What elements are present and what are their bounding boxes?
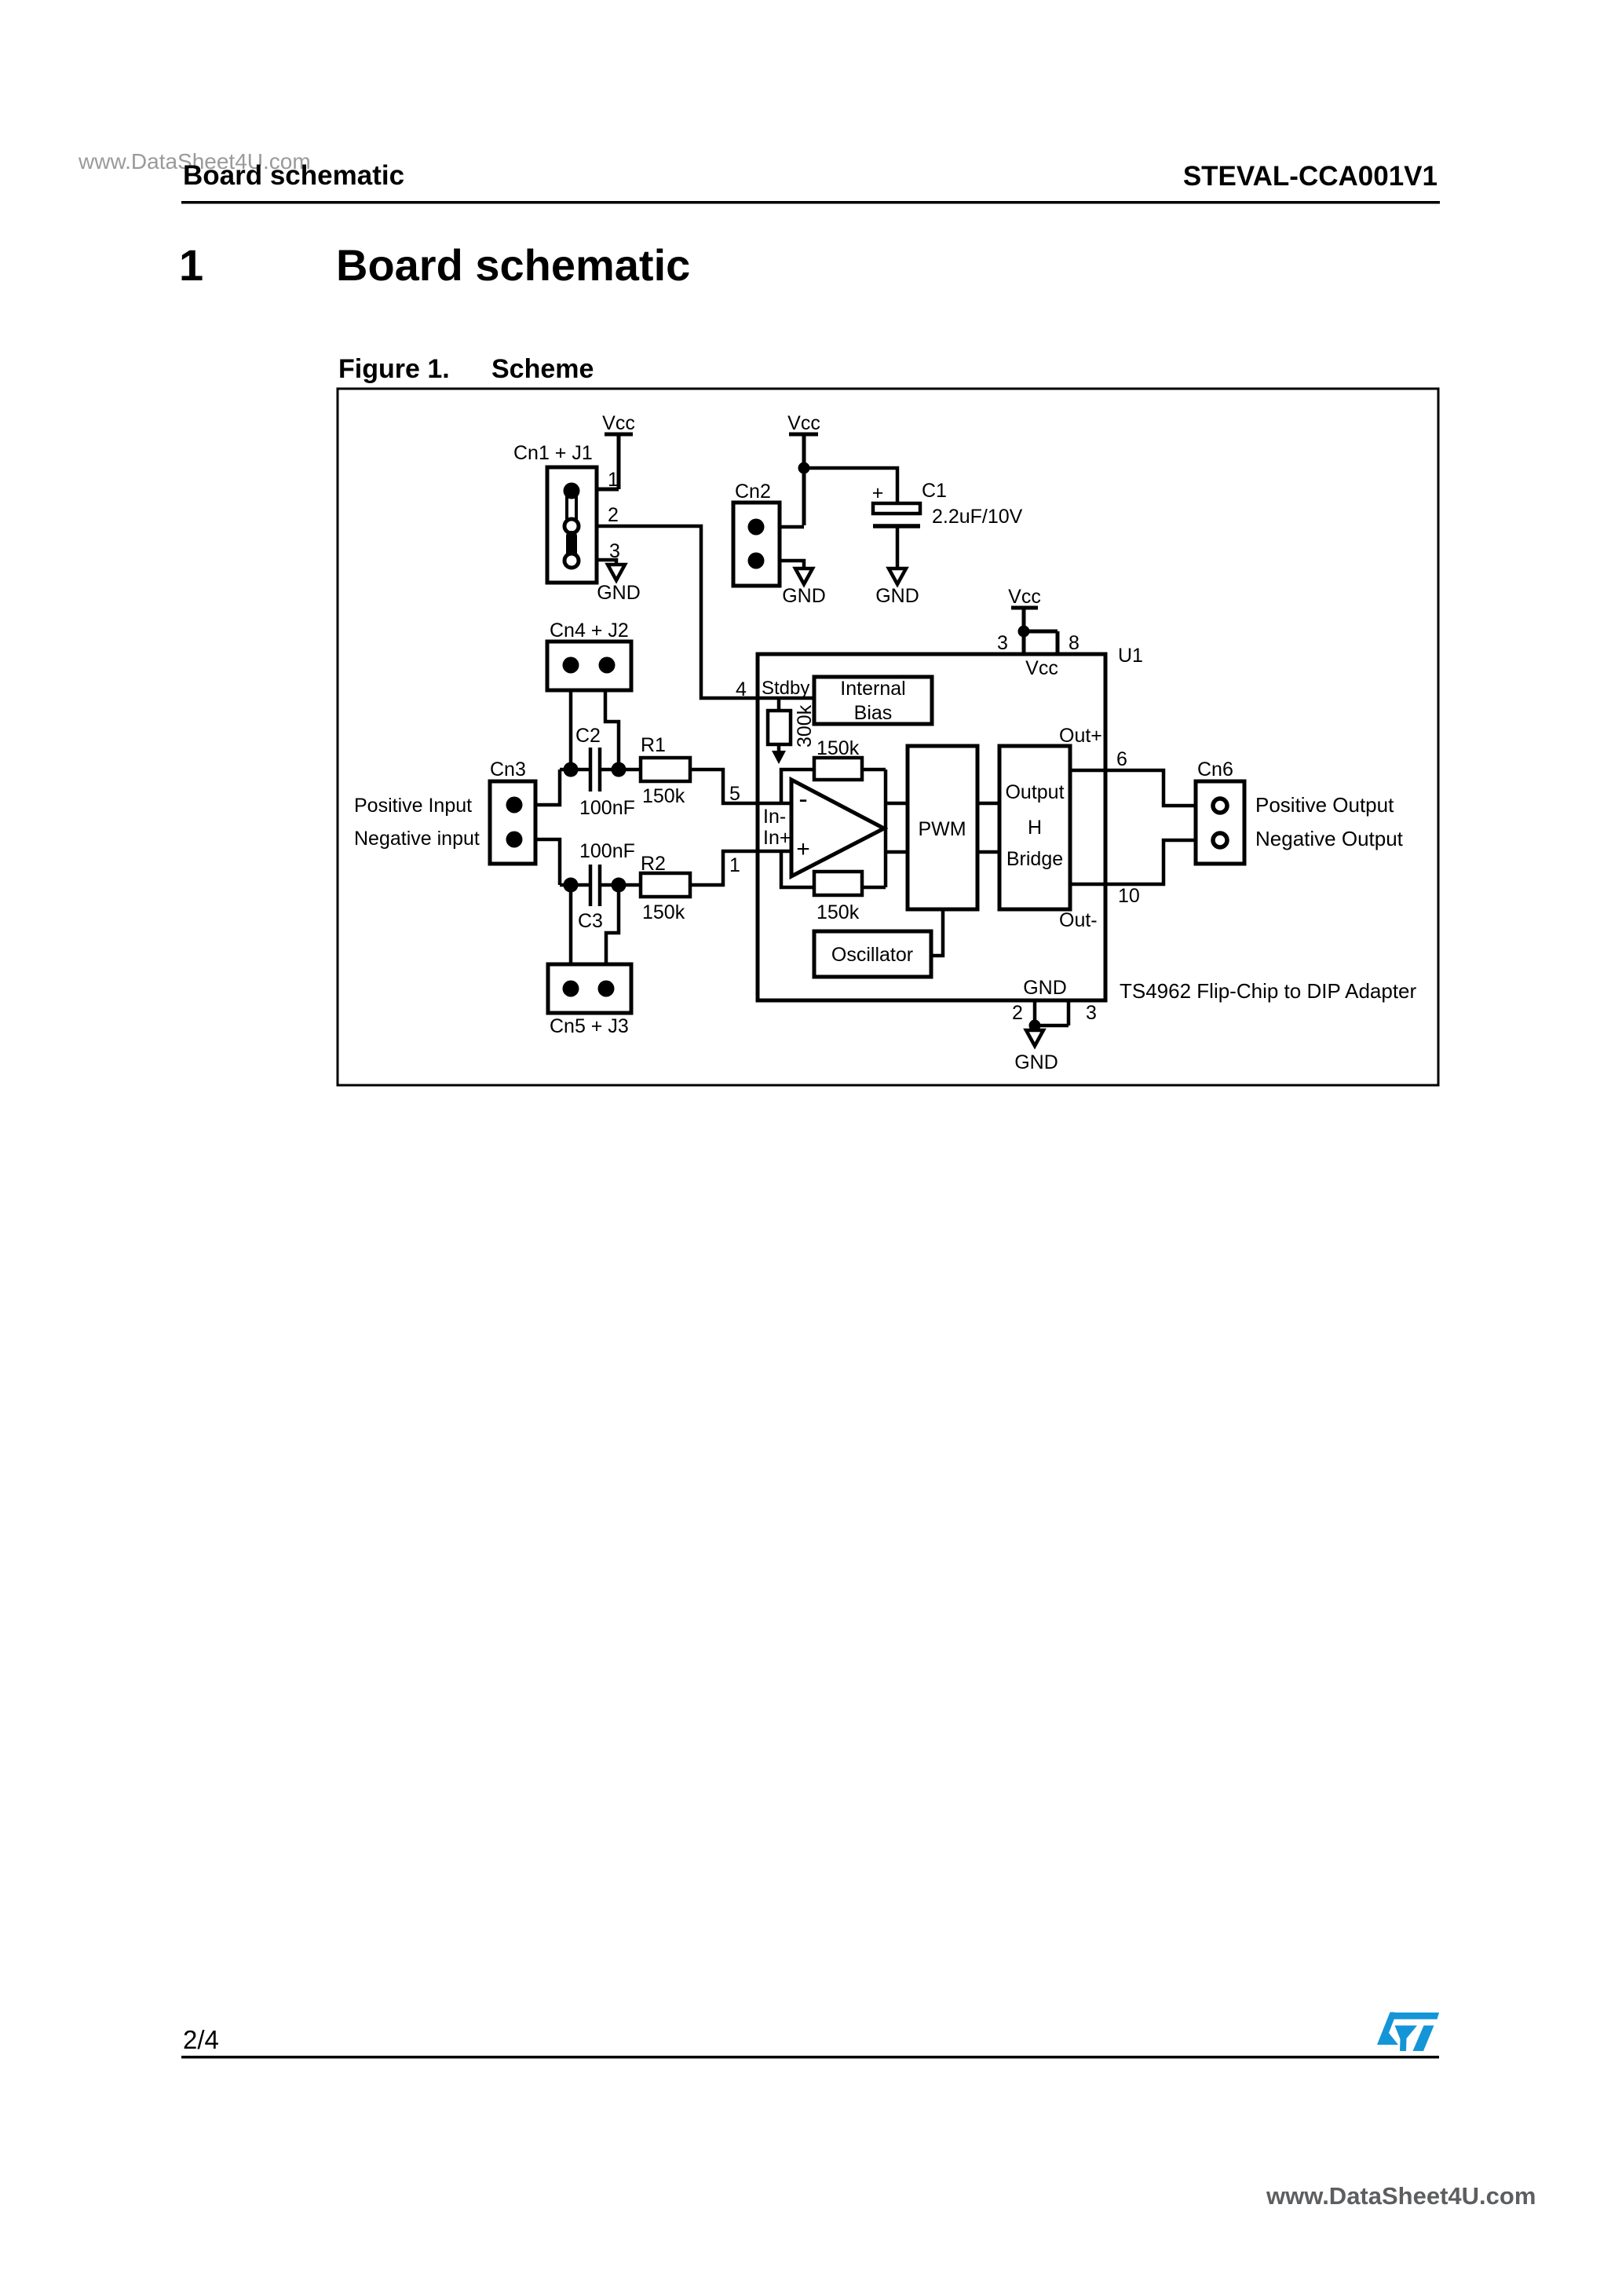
svg-text:+: + xyxy=(796,836,810,862)
svg-text:2: 2 xyxy=(1012,1002,1023,1024)
svg-text:Vcc: Vcc xyxy=(1008,586,1041,608)
svg-text:Cn3: Cn3 xyxy=(490,759,526,781)
svg-text:Cn1 + J1: Cn1 + J1 xyxy=(513,442,593,464)
svg-text:Positive Output: Positive Output xyxy=(1255,793,1394,817)
svg-text:C1: C1 xyxy=(922,480,947,502)
svg-text:Internal: Internal xyxy=(840,678,905,700)
svg-text:Cn5 + J3: Cn5 + J3 xyxy=(550,1015,629,1037)
svg-text:100nF: 100nF xyxy=(579,840,635,862)
svg-text:In+: In+ xyxy=(763,827,791,849)
svg-text:4: 4 xyxy=(736,678,747,700)
svg-text:TS4962 Flip-Chip to DIP Adapte: TS4962 Flip-Chip to DIP Adapter xyxy=(1120,979,1417,1003)
svg-text:100nF: 100nF xyxy=(579,797,635,819)
svg-text:150k: 150k xyxy=(816,737,860,759)
svg-text:www.DataSheet4U.com: www.DataSheet4U.com xyxy=(1266,2182,1536,2210)
svg-text:1: 1 xyxy=(608,469,619,491)
svg-text:150k: 150k xyxy=(642,901,685,923)
svg-text:GND: GND xyxy=(782,585,826,607)
svg-text:Positive Input: Positive Input xyxy=(354,795,472,817)
svg-text:H: H xyxy=(1028,817,1042,839)
svg-text:Vcc: Vcc xyxy=(1025,657,1058,679)
svg-text:1: 1 xyxy=(179,240,203,290)
svg-text:Cn6: Cn6 xyxy=(1197,759,1233,781)
svg-text:U1: U1 xyxy=(1118,645,1143,667)
svg-text:2/4: 2/4 xyxy=(183,2025,219,2054)
svg-text:GND: GND xyxy=(875,585,919,607)
svg-text:8: 8 xyxy=(1069,632,1080,654)
svg-text:Scheme: Scheme xyxy=(491,354,594,384)
svg-text:GND: GND xyxy=(1023,977,1067,999)
svg-text:2.2uF/10V: 2.2uF/10V xyxy=(932,506,1023,528)
svg-text:-: - xyxy=(798,784,807,814)
svg-text:In-: In- xyxy=(763,806,786,828)
svg-text:Board schematic: Board schematic xyxy=(183,160,404,191)
svg-text:300k: 300k xyxy=(794,704,816,748)
svg-text:Out-: Out- xyxy=(1059,909,1098,931)
svg-text:1: 1 xyxy=(729,854,740,876)
svg-text:Stdby: Stdby xyxy=(762,678,809,699)
svg-text:3: 3 xyxy=(609,540,620,562)
svg-text:3: 3 xyxy=(997,632,1008,654)
svg-text:Out+: Out+ xyxy=(1059,725,1102,747)
svg-text:2: 2 xyxy=(608,504,619,526)
svg-text:Figure 1.: Figure 1. xyxy=(338,354,450,384)
svg-text:6: 6 xyxy=(1116,748,1127,770)
svg-text:R2: R2 xyxy=(641,853,666,875)
svg-text:Output: Output xyxy=(1005,781,1064,803)
svg-text:150k: 150k xyxy=(816,901,860,923)
svg-text:Board schematic: Board schematic xyxy=(336,240,690,290)
svg-text:10: 10 xyxy=(1118,885,1140,907)
svg-text:Bridge: Bridge xyxy=(1006,848,1063,870)
svg-text:5: 5 xyxy=(729,783,740,805)
svg-text:Vcc: Vcc xyxy=(787,412,820,434)
svg-text:3: 3 xyxy=(1086,1002,1097,1024)
svg-text:Vcc: Vcc xyxy=(602,412,635,434)
svg-text:Negative input: Negative input xyxy=(354,828,480,850)
svg-text:150k: 150k xyxy=(642,785,685,807)
svg-text:GND: GND xyxy=(597,582,641,604)
svg-text:Cn4 + J2: Cn4 + J2 xyxy=(550,620,629,642)
svg-text:Bias: Bias xyxy=(854,702,893,724)
svg-text:C3: C3 xyxy=(578,910,603,932)
svg-text:Cn2: Cn2 xyxy=(735,481,771,503)
svg-text:Oscillator: Oscillator xyxy=(831,944,913,966)
svg-text:+: + xyxy=(872,482,884,504)
svg-text:R1: R1 xyxy=(641,734,666,756)
svg-text:PWM: PWM xyxy=(918,818,966,840)
svg-text:Negative Output: Negative Output xyxy=(1255,827,1404,850)
svg-text:C2: C2 xyxy=(575,725,601,747)
svg-text:GND: GND xyxy=(1014,1051,1058,1073)
svg-text:STEVAL-CCA001V1: STEVAL-CCA001V1 xyxy=(1183,161,1438,192)
